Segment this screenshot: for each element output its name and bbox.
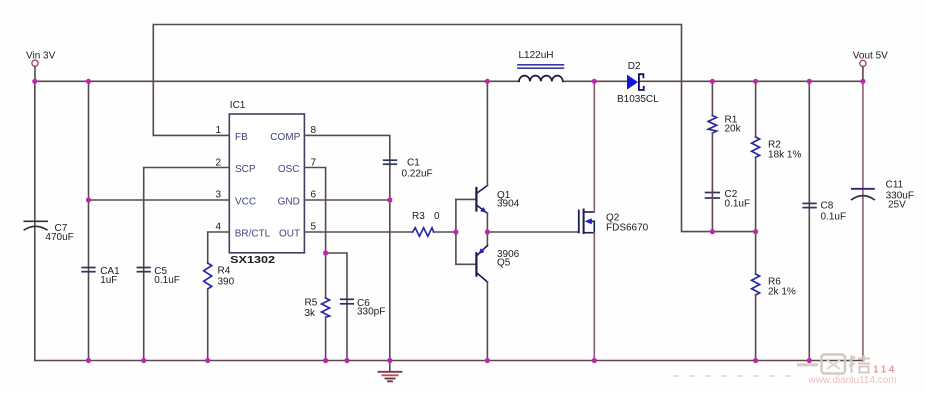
junction Q2 drain / inductor-diode node	[592, 79, 597, 84]
svg-text:Q5: Q5	[497, 257, 511, 268]
capacitor C1	[304, 135, 432, 200]
svg-text:GND: GND	[278, 196, 300, 207]
svg-text:20k: 20k	[725, 124, 742, 135]
junction C5 / ground rail	[141, 358, 146, 363]
junction R1 column / Vout rail	[710, 79, 715, 84]
svg-text:C8: C8	[821, 201, 834, 212]
op-amp IC U1 box SX1302	[229, 100, 304, 266]
watermark	[673, 355, 897, 386]
junction Q1 collector / top rail	[485, 79, 490, 84]
svg-text:VCC: VCC	[235, 196, 256, 207]
junction C11 column / Vout terminal	[860, 79, 865, 84]
resistor R3 value 0	[304, 211, 456, 236]
pin 3 VCC	[215, 190, 256, 208]
junction GND pin / C1 bottom	[387, 197, 392, 202]
capacitor C2	[706, 189, 750, 232]
pin 5 OUT	[279, 222, 317, 240]
junction R6 / ground rail	[753, 358, 758, 363]
svg-text:FDS6670: FDS6670	[606, 222, 649, 233]
junction CA1 column / top rail	[86, 79, 91, 84]
svg-text:2: 2	[215, 157, 221, 168]
diode D2 B1035CL schottky	[617, 61, 659, 105]
svg-text:0.22uF: 0.22uF	[402, 169, 433, 180]
junction C8 / ground rail	[807, 358, 812, 363]
wire GND pin to ground column	[304, 200, 389, 361]
svg-text:L122uH: L122uH	[519, 50, 554, 61]
svg-text:4: 4	[215, 222, 221, 233]
svg-text:3k: 3k	[305, 308, 317, 319]
resistor R2	[752, 81, 802, 231]
junction C8 column / Vout rail	[807, 79, 812, 84]
junction R4 / ground rail	[205, 358, 210, 363]
junction FB node / R2-R6	[753, 229, 758, 234]
svg-text:FB: FB	[235, 132, 248, 143]
pin 1 FB	[215, 125, 248, 143]
transistor Q5 3906	[456, 246, 520, 361]
svg-text:1uF: 1uF	[100, 275, 117, 286]
resistor R4	[204, 232, 235, 361]
junction VCC rail / CA1 column	[86, 197, 91, 202]
pin 2 SCP	[215, 157, 255, 175]
junction C6 / ground rail	[344, 358, 349, 363]
svg-text:R3: R3	[412, 211, 425, 222]
node Vin terminal	[26, 50, 56, 81]
ground symbol	[378, 361, 401, 382]
svg-text:0.1uF: 0.1uF	[725, 199, 751, 210]
pin 6 GND	[278, 190, 317, 208]
wire top rail left segment	[35, 80, 519, 82]
svg-text:5: 5	[311, 222, 317, 233]
wire top rail right segment	[640, 80, 863, 82]
wire top rail middle segment	[563, 80, 627, 82]
svg-text:SX1302: SX1302	[230, 255, 276, 266]
svg-text:www.dianlu114.com: www.dianlu114.com	[808, 375, 897, 386]
junction Vin rail / C7 column	[32, 79, 37, 84]
node Vout terminal	[853, 50, 888, 81]
wire VCC rail	[89, 199, 230, 201]
transistor Q2 FDS6670 mosfet	[579, 81, 649, 360]
svg-text:C1: C1	[407, 158, 420, 169]
capacitor C11	[852, 81, 914, 360]
svg-text:C11: C11	[886, 179, 904, 190]
wire gate	[487, 231, 578, 233]
svg-text:OSC: OSC	[278, 164, 300, 175]
junction Q2 source / ground rail	[592, 358, 597, 363]
svg-text:IC1: IC1	[230, 100, 246, 111]
pin 7 OSC	[278, 157, 317, 175]
svg-text:1: 1	[215, 125, 221, 136]
svg-text:3: 3	[215, 190, 221, 201]
junction CA1 / ground rail	[86, 358, 91, 363]
svg-text:2k 1%: 2k 1%	[768, 287, 796, 298]
svg-text:BR/CTL: BR/CTL	[235, 229, 271, 240]
wire FB top route	[153, 25, 755, 232]
node emitter junction to gate	[485, 229, 490, 234]
svg-text:3904: 3904	[497, 198, 520, 209]
junction R2 column / Vout rail	[753, 79, 758, 84]
svg-text:Vout 5V: Vout 5V	[853, 50, 888, 61]
svg-text:390: 390	[218, 277, 235, 288]
pin 8 COMP	[270, 125, 316, 143]
svg-text:470uF: 470uF	[45, 232, 73, 243]
resistor R5	[304, 168, 329, 361]
svg-text:OUT: OUT	[279, 229, 300, 240]
resistor R6	[752, 232, 796, 361]
capacitor C6	[326, 253, 386, 361]
svg-text:R4: R4	[218, 266, 231, 277]
node base of Q1-Q5	[453, 229, 458, 234]
svg-text:6: 6	[311, 190, 317, 201]
svg-text:0: 0	[434, 211, 440, 222]
svg-text:D2: D2	[628, 61, 641, 72]
svg-text:COMP: COMP	[270, 132, 300, 143]
svg-text:18k 1%: 18k 1%	[768, 150, 801, 161]
svg-text:330pF: 330pF	[357, 307, 385, 318]
svg-text:B1035CL: B1035CL	[617, 94, 659, 105]
capacitor C8	[803, 81, 846, 360]
wire base node vertical	[455, 199, 457, 264]
svg-text:SCP: SCP	[235, 164, 256, 175]
svg-text:25V: 25V	[888, 199, 906, 210]
svg-text:Vin 3V: Vin 3V	[26, 50, 56, 61]
svg-text:0.1uF: 0.1uF	[821, 212, 847, 223]
resistor R1	[708, 81, 741, 190]
capacitor C5	[137, 168, 229, 361]
pin 4 BR/CTL	[215, 222, 270, 240]
junction ground symbol / ground rail	[387, 358, 392, 363]
inductor L1 22uH	[518, 50, 563, 81]
junction OSC / R5 / C6 branch	[323, 250, 328, 255]
transistor Q1 3904	[456, 81, 520, 245]
junction FB node / C2 bottom	[710, 229, 715, 234]
svg-text:R5: R5	[305, 298, 318, 309]
junction R5 / ground rail	[323, 358, 328, 363]
capacitor CA1	[82, 81, 120, 360]
svg-text:8: 8	[311, 125, 317, 136]
svg-text:0.1uF: 0.1uF	[154, 275, 180, 286]
junction Q5 collector / ground rail	[485, 358, 490, 363]
capacitor C7	[24, 81, 73, 360]
wire bottom ground rail	[35, 360, 863, 362]
